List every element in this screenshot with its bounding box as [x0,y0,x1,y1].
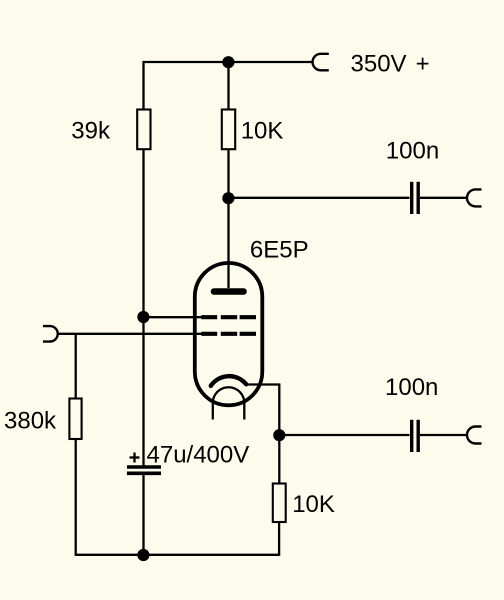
node dot ground rail [137,549,149,561]
capacitor 47u plus sign [130,456,140,458]
wire lower 100n cap to output terminal [420,434,467,436]
wire 10K top lead [227,61,229,110]
tube anode plate bar [214,288,244,295]
wire 10K to ground rail [278,521,280,556]
wire top rail 350V [143,61,313,63]
wire cathode lead [246,385,279,436]
wire cathode node to lower 100n cap [279,434,409,436]
tube control grid g1 dashes [201,332,256,336]
node dot cathode [273,429,285,441]
terminal output bottom [467,427,482,444]
wire 380k top lead [75,333,77,399]
svg-text:380k: 380k [4,408,57,435]
svg-text:100n: 100n [385,374,438,401]
terminal output top [467,189,482,206]
wire input to control grid g1 [58,333,205,335]
resistor 380k body [69,399,81,440]
tube screen grid g2 dashes [201,315,256,319]
capacitor 47u plates [127,465,161,468]
svg-text:10K: 10K [292,491,335,518]
resistor 10K top body [222,110,235,150]
wire bottom rail [76,554,279,556]
node dot anode [222,192,234,204]
tube heater [213,387,245,419]
wire 47u cap to ground rail [142,475,144,555]
resistor 10K bottom body [273,484,286,523]
terminal input [43,326,58,342]
wire anode node to 100n cap [229,197,410,199]
wire cathode node to 10K [278,435,280,484]
svg-text:39k: 39k [71,118,111,145]
wire screen grid g2 [144,316,205,318]
svg-text:10K: 10K [241,118,284,145]
node dot top rail [222,56,234,68]
svg-text:350V: 350V [351,51,407,78]
resistor 39k body [137,110,150,150]
terminal 350V [313,54,329,71]
svg-text:47u/400V: 47u/400V [147,441,250,468]
node dot screen grid [137,311,149,323]
tube 6E5P envelope [195,263,262,405]
svg-text:6E5P: 6E5P [250,237,309,264]
svg-text:100n: 100n [386,138,439,165]
capacitor 100n top plates [410,182,413,214]
wire 10K lower lead to anode node [227,149,229,198]
wire 100n cap to output terminal [420,197,467,199]
wire 39k top lead [142,61,144,110]
wire 39k bottom lead to screen-grid node and 47u cap [142,149,144,466]
capacitor 100n bottom plates [410,420,413,452]
wire anode node to plate [227,198,229,288]
tube cathode arc [211,376,246,386]
svg-text:+: + [416,51,430,78]
wire 380k bottom lead [75,439,77,556]
